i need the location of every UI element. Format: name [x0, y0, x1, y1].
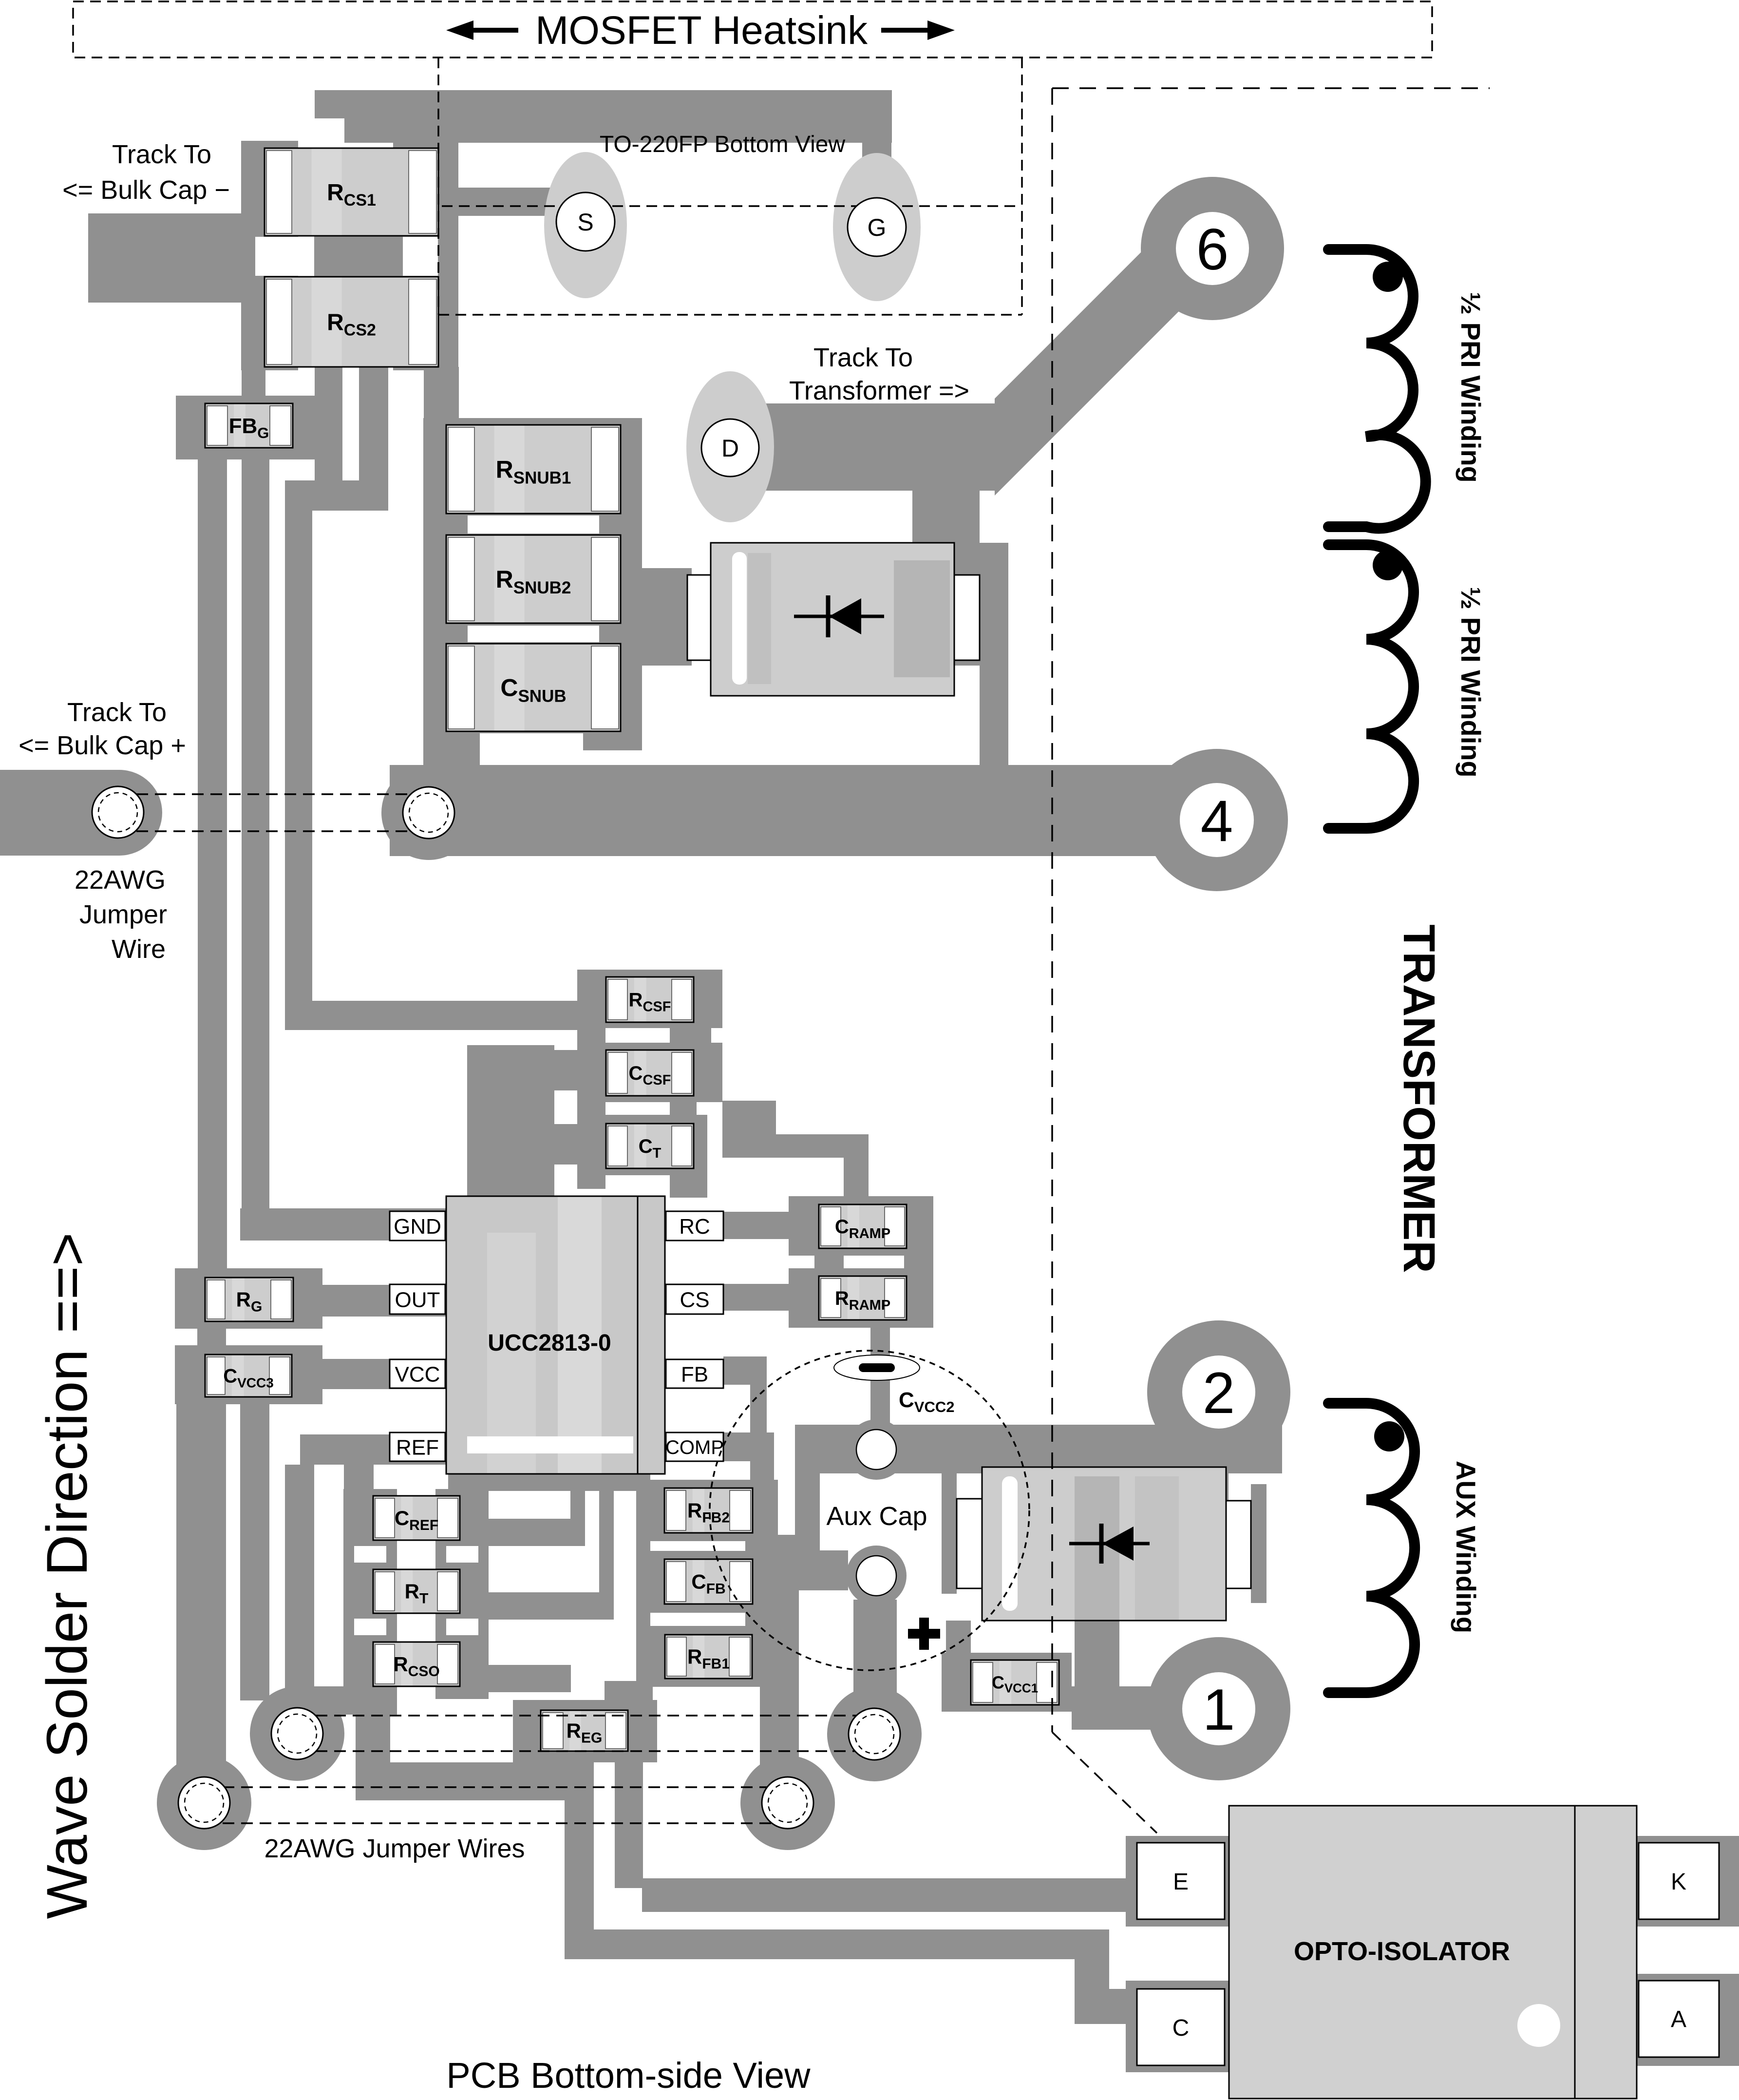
- pin OUT: [390, 1284, 445, 1314]
- via A: [271, 1708, 323, 1759]
- wire: bar to RCSF: [285, 1001, 580, 1030]
- resistor RG: [205, 1278, 293, 1321]
- svg-text:4: 4: [1201, 788, 1233, 854]
- svg-text:½ PRI Winding: ½ PRI Winding: [1455, 587, 1486, 777]
- wire: CT surround: [577, 1102, 707, 1175]
- wire: big track to transformer pad 4: [390, 765, 1184, 856]
- via D: [762, 1777, 813, 1829]
- pin CS: [666, 1284, 723, 1314]
- label Track To Transformer: [789, 343, 969, 405]
- wire: REF bar to CREF link: [344, 1465, 374, 1496]
- wire: H links CREF/RT/RCSO: [489, 1519, 614, 1692]
- transformer dashed outline: [1052, 88, 1490, 1833]
- wire: top bar down to RCS1 right pad column: [403, 118, 458, 151]
- wire: CCSF-GND link: [554, 1050, 577, 1090]
- wire: OUT pin bar: [322, 1285, 448, 1317]
- wire: RRAMP down to aux bar: [870, 1328, 890, 1428]
- svg-text:REF: REF: [396, 1435, 439, 1459]
- wire: under-IC bar: [448, 1474, 650, 1491]
- svg-text:<= Bulk Cap −: <= Bulk Cap −: [62, 175, 230, 205]
- capacitor CFB: [664, 1559, 753, 1604]
- via C: [849, 1708, 900, 1760]
- wire: opto E pad surround: [1126, 1836, 1229, 1927]
- wire: VCC pin bar: [322, 1359, 448, 1389]
- svg-text:C: C: [1172, 2015, 1190, 2041]
- pad 6 hole: [1176, 212, 1249, 285]
- wire: RC pin bar: [665, 1212, 792, 1239]
- jumper wire dashed pair B-D: [204, 1787, 788, 1823]
- wire: pad 1 bar: [1072, 1686, 1184, 1730]
- capacitor CVCC3: [205, 1355, 292, 1397]
- wire: CFB surround: [650, 1551, 778, 1613]
- capacitor CCSF: [606, 1050, 694, 1096]
- wire: RFB links: [745, 1541, 775, 1626]
- aux cap plus symbol: [908, 1618, 940, 1650]
- svg-text:Track To: Track To: [112, 140, 211, 169]
- svg-text:Track To: Track To: [67, 698, 167, 727]
- op-amp U1 UCC2813-0 controller IC: [446, 1196, 665, 1474]
- CVCC2 pad holes: [856, 1430, 896, 1596]
- wire: RCSF-CCSF link: [577, 1027, 711, 1051]
- transistor TO-220 pad G oval: [833, 153, 921, 301]
- wire: REG surround: [513, 1700, 657, 1762]
- svg-text:TRANSFORMER: TRANSFORMER: [1394, 924, 1444, 1273]
- pad CVCC2 top annulus: [846, 1419, 907, 1480]
- resistor RRAMP: [819, 1276, 907, 1320]
- pin REF: [390, 1432, 445, 1461]
- svg-text:COMP: COMP: [665, 1437, 724, 1458]
- wire: via C strip: [853, 1600, 897, 1734]
- wire: right pads column down to via D: [760, 1535, 799, 1803]
- svg-text:FB: FB: [681, 1362, 708, 1386]
- pad 6 annulus: [1141, 177, 1284, 320]
- MOSFET heatsink dashed outline: [73, 1, 1432, 57]
- wire: bottom L bar to REG: [358, 1762, 594, 1800]
- wire: E strip down: [615, 1762, 643, 1888]
- svg-text:G: G: [868, 214, 887, 241]
- resistor RSNUB1: [446, 425, 621, 514]
- pad S hole: [556, 192, 615, 251]
- wire: opto C pad surround: [1126, 1981, 1229, 2072]
- resistor RFB1: [665, 1635, 752, 1679]
- wire: D1 cathode down to pad4 bar: [980, 666, 1008, 770]
- svg-text:D: D: [721, 435, 739, 462]
- wire: REF column down to via A: [285, 1465, 314, 1735]
- wire: RCS1/RCS2 right pad column: [393, 139, 458, 370]
- wire: source arm to S pad: [438, 188, 550, 216]
- transformer primary winding 1 coil: [1328, 249, 1426, 529]
- svg-text:1: 1: [1203, 1677, 1235, 1742]
- svg-text:PCB Bottom-side View: PCB Bottom-side View: [446, 2055, 811, 2096]
- wire: snubber to D1 anode stub: [642, 568, 692, 666]
- resistor RCSO: [373, 1642, 460, 1686]
- aux cap minus marking: [834, 1355, 920, 1380]
- svg-text:S: S: [577, 209, 593, 236]
- pin GND: [390, 1211, 445, 1241]
- wire: CRAMP surround: [789, 1196, 933, 1256]
- opto-isolator U2: [1137, 1806, 1719, 2099]
- resistor RFB2: [664, 1488, 753, 1533]
- svg-text:Transformer =>: Transformer =>: [789, 376, 969, 405]
- svg-text:VCC: VCC: [395, 1362, 440, 1386]
- via bulk cap plus right: [403, 787, 454, 839]
- wire: gate stub down to G pad: [862, 118, 891, 166]
- wire: CCSF right path to CRAMP: [722, 1101, 869, 1199]
- wire: snubber surround: [423, 418, 642, 750]
- wire: C strip down: [565, 1800, 594, 1939]
- resistor RT: [373, 1569, 460, 1613]
- svg-text:22AWG: 22AWG: [75, 865, 166, 895]
- svg-text:AUX Winding: AUX Winding: [1451, 1461, 1481, 1633]
- pad 4 annulus: [1146, 749, 1288, 891]
- svg-text:GND: GND: [394, 1215, 441, 1239]
- label Track To Bulk Cap plus: [19, 698, 186, 760]
- svg-text:2: 2: [1203, 1360, 1235, 1426]
- resistor RCS1: [265, 148, 438, 236]
- wire: top source bar from RCS area to MOSFET gate strip: [315, 90, 892, 143]
- wire: FB stub: [723, 1356, 767, 1480]
- transformer primary winding 2 coil: [1328, 545, 1414, 828]
- label 22AWG Jumper Wire: [75, 865, 167, 964]
- label MOSFET Heatsink: [446, 8, 955, 53]
- wire: track to bulk cap minus: [88, 213, 241, 303]
- wire: CT-GND link: [554, 1124, 577, 1165]
- wire: diagonal track to pad 6: [995, 194, 1253, 496]
- svg-text:RC: RC: [679, 1215, 710, 1239]
- wire: D2 to CVCC1/pad1 riser: [1075, 1621, 1119, 1686]
- wire: CCSF surround: [577, 1043, 722, 1102]
- wire: vertical S2 column down to GND bar: [242, 459, 269, 1241]
- wire: REF column to component column link: [285, 1686, 397, 1715]
- pin FB: [666, 1359, 723, 1388]
- capacitor CREF: [373, 1496, 460, 1540]
- wire: CRAMP-RRAMP links: [814, 1256, 933, 1268]
- jumper wire dashed pair top: [118, 794, 429, 831]
- wire: aux bottom bar: [795, 1550, 848, 1590]
- wire: RCS2 right pad down to snubber: [424, 367, 459, 425]
- svg-text:½ PRI Winding: ½ PRI Winding: [1455, 292, 1486, 482]
- capacitor CVCC1: [971, 1660, 1059, 1705]
- pad D hole: [701, 419, 759, 477]
- pin RC: [666, 1211, 723, 1241]
- capacitor CT: [606, 1124, 694, 1168]
- svg-text:MOSFET Heatsink: MOSFET Heatsink: [535, 8, 868, 53]
- wire: columns under IC: [570, 1475, 653, 1708]
- wire: CVCC3 column down to via A: [240, 1404, 269, 1700]
- svg-text:Jumper: Jumper: [79, 900, 167, 929]
- svg-text:K: K: [1671, 1869, 1686, 1895]
- wire: left column down join: [356, 1699, 390, 1800]
- svg-text:TO-220FP Bottom View: TO-220FP Bottom View: [600, 132, 846, 157]
- pin COMP: [665, 1432, 724, 1461]
- transistor TO-220 pad D oval: [686, 371, 774, 522]
- wire: D1 cathode surround: [892, 543, 1008, 666]
- diode D1 snubber diode: [687, 543, 980, 696]
- label Track To Bulk Cap minus: [62, 140, 230, 205]
- transformer aux winding coil: [1328, 1403, 1415, 1693]
- wire: RFB1 surround: [650, 1626, 779, 1687]
- wire: D2 cathode-side verticals: [1167, 1473, 1266, 1603]
- svg-text:UCC2813-0: UCC2813-0: [488, 1330, 611, 1356]
- pad 1 annulus: [1147, 1637, 1290, 1780]
- transistor TO-220 pad S oval: [544, 152, 627, 298]
- wire: RG-CVCC3 link: [197, 1329, 226, 1345]
- ferrite bead FBG: [205, 403, 293, 448]
- wire: CREF/RT/RCSO right pad column: [435, 1489, 489, 1699]
- wire: opto K pad surround: [1631, 1836, 1739, 1927]
- wire: snubber bottom into pad4 bar: [423, 726, 480, 770]
- svg-text:22AWG Jumper Wires: 22AWG Jumper Wires: [264, 1834, 525, 1863]
- wire: FBG surround: [176, 396, 322, 459]
- diode D2 aux rectifier: [957, 1467, 1251, 1621]
- wire: RCS1/RCS2 left pad column: [241, 141, 298, 370]
- wire: vertical S3 column down to RCSF bar: [285, 511, 312, 1030]
- wire: RRAMP surround: [789, 1268, 933, 1328]
- wire: CT columns to IC: [577, 1175, 707, 1198]
- svg-text:Wave Solder Direction ==>: Wave Solder Direction ==>: [35, 1232, 99, 1919]
- TO-220 dashed outline: [438, 57, 1022, 315]
- wire: RCSF surround: [577, 970, 722, 1028]
- wire: CVCC3 surround: [175, 1345, 322, 1404]
- jumper wire dashed pair A-C: [297, 1716, 874, 1751]
- via pads bottom: [157, 765, 922, 1850]
- aux cap dashed circle: [710, 1351, 1029, 1670]
- svg-text:6: 6: [1196, 217, 1229, 282]
- wire: C bar to opto: [565, 1929, 1135, 2024]
- wire: E bar to opto: [642, 1878, 1135, 1912]
- svg-text:A: A: [1671, 2006, 1686, 2032]
- pad G hole: [848, 198, 906, 256]
- wire: RFB2 surround: [650, 1480, 778, 1541]
- wire: wide left column down to via B: [176, 1404, 226, 1783]
- wire: GND plane block: [467, 1045, 554, 1213]
- wire: drain bar from D pad to transformer: [706, 403, 995, 491]
- wire: CREF/RT/RCSO left pad column: [343, 1489, 397, 1699]
- svg-text:E: E: [1173, 1869, 1189, 1895]
- wire: aux left column: [795, 1428, 820, 1590]
- wire: REF pin bar: [300, 1434, 448, 1465]
- svg-text:<= Bulk Cap +: <= Bulk Cap +: [19, 731, 186, 760]
- via B: [178, 1777, 230, 1829]
- wire: track to bulk cap plus (rounded end): [0, 770, 162, 856]
- pad 4 hole: [1180, 783, 1254, 857]
- svg-text:Aux Cap: Aux Cap: [826, 1502, 927, 1531]
- wire: vertical S1 column FBG-left down to RG: [198, 459, 227, 1277]
- svg-text:Wire: Wire: [112, 935, 166, 964]
- svg-text:CS: CS: [680, 1288, 709, 1312]
- wire: RG surround: [175, 1268, 322, 1329]
- wire: RCS2 bottom columns to jog: [285, 367, 388, 511]
- wire: CS pin bar: [665, 1284, 792, 1311]
- resistor REG: [541, 1710, 628, 1751]
- svg-text:Track To: Track To: [813, 343, 913, 372]
- pin VCC: [390, 1359, 445, 1388]
- wire: RCS2 left pad to FBG: [242, 367, 265, 396]
- capacitor CSNUB: [446, 644, 621, 731]
- pad 2 annulus: [1147, 1320, 1290, 1464]
- svg-text:OPTO-ISOLATOR: OPTO-ISOLATOR: [1294, 1937, 1510, 1966]
- wire: opto A pad surround: [1631, 1974, 1739, 2066]
- wire: COMP stub: [723, 1432, 774, 1480]
- wire: RCS1/RCS2 middle block between comps: [314, 236, 403, 277]
- via bulk cap plus left: [92, 786, 144, 838]
- pad 1 hole: [1182, 1672, 1255, 1745]
- pad 2 hole: [1182, 1355, 1255, 1429]
- wire: drain bar down to D1 cathode: [912, 491, 980, 546]
- capacitor CRAMP: [819, 1204, 907, 1248]
- wire: GND pin bar: [240, 1208, 448, 1241]
- wire: CVCC1 surround: [942, 1653, 1072, 1712]
- resistor RSNUB2: [446, 535, 621, 623]
- wire: aux top bar to pad 2: [795, 1425, 1282, 1473]
- resistor RCS2: [265, 277, 438, 367]
- wire: D2 anode column: [942, 1467, 971, 1653]
- svg-text:OUT: OUT: [395, 1288, 440, 1312]
- resistor RCSF: [606, 977, 694, 1022]
- pad CVCC2 bottom annulus: [846, 1546, 907, 1606]
